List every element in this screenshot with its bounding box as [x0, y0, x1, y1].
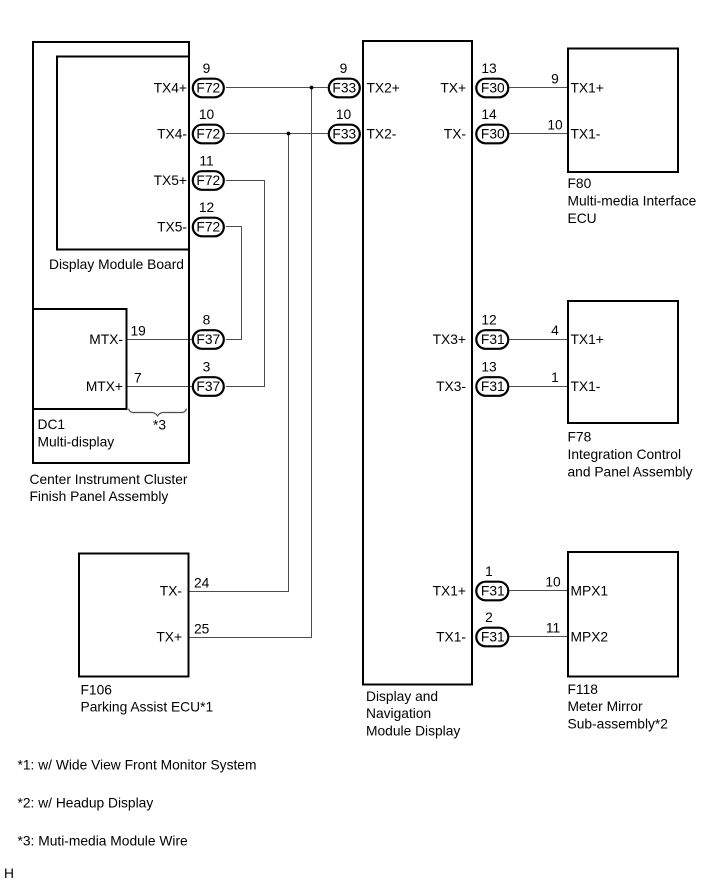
- connector F31 pin 2: [476, 610, 508, 646]
- box Center Instrument Cluster Finish Panel Assembly: [33, 42, 189, 463]
- wire F30 pin14 to F80 TX1-: [509, 133, 568, 135]
- svg-text:13: 13: [481, 61, 497, 76]
- svg-text:1: 1: [551, 370, 559, 385]
- svg-text:TX1+: TX1+: [571, 81, 604, 96]
- svg-text:F31: F31: [481, 379, 505, 394]
- svg-text:12: 12: [481, 312, 496, 327]
- svg-text:H: H: [4, 866, 14, 881]
- svg-text:MTX+: MTX+: [86, 379, 123, 394]
- wire F31 pin1 to F118 MPX1: [509, 590, 568, 592]
- svg-text:Sub-assembly*2: Sub-assembly*2: [568, 716, 668, 731]
- svg-text:13: 13: [481, 359, 497, 374]
- svg-text:Display Module Board: Display Module Board: [49, 257, 184, 272]
- svg-text:9: 9: [340, 61, 348, 76]
- svg-text:MTX-: MTX-: [89, 332, 123, 347]
- wire F30 pin13 to F80 TX1+: [509, 87, 568, 89]
- svg-text:TX4-: TX4-: [157, 127, 187, 142]
- wire F31 pin12 to F78 TX1+: [509, 339, 568, 341]
- svg-text:F37: F37: [196, 332, 220, 347]
- svg-text:4: 4: [551, 323, 559, 338]
- wire MTX+ : DC1 pin7 to F37 pin3: [128, 386, 192, 388]
- connector F30 pin 14: [476, 107, 508, 143]
- svg-text:8: 8: [203, 312, 211, 327]
- svg-text:10: 10: [336, 107, 352, 122]
- wire TX4- row: F72 pin10 to F33 pin10: [226, 133, 328, 135]
- svg-text:F72: F72: [196, 173, 220, 188]
- connector F37 pin 3: [193, 359, 224, 395]
- connector F31 pin 12: [476, 312, 508, 348]
- svg-text:11: 11: [199, 153, 213, 168]
- svg-text:Display and: Display and: [366, 689, 438, 704]
- svg-text:TX1-: TX1-: [436, 630, 466, 645]
- svg-text:12: 12: [199, 200, 214, 215]
- box Display and Navigation Module Display: [363, 41, 472, 685]
- connector F31 pin 13: [476, 359, 508, 395]
- box F106 Parking Assist ECU: [79, 554, 189, 677]
- connector F72 pin 12: [193, 200, 224, 236]
- svg-text:Navigation: Navigation: [366, 706, 431, 721]
- connector F31 pin 1: [476, 564, 508, 600]
- svg-text:9: 9: [203, 61, 211, 76]
- svg-text:ECU: ECU: [568, 211, 597, 226]
- svg-text:F31: F31: [481, 630, 505, 645]
- wire TX4+ row: F72 pin9 to F33 pin9: [226, 87, 328, 89]
- svg-text:F118: F118: [568, 682, 599, 697]
- connector F72 pin 11: [193, 153, 224, 189]
- box F78 Integration Control and Panel Assembly: [568, 301, 678, 423]
- svg-text:MPX2: MPX2: [571, 630, 609, 645]
- svg-text:F30: F30: [481, 127, 505, 142]
- svg-text:F78: F78: [568, 430, 592, 445]
- svg-text:1: 1: [485, 564, 493, 579]
- svg-text:10: 10: [199, 107, 215, 122]
- connector F33 pin 9: [329, 61, 360, 97]
- box F80 Multi-media Interface ECU: [568, 49, 678, 173]
- svg-text:TX1-: TX1-: [571, 127, 601, 142]
- svg-text:TX5+: TX5+: [154, 173, 187, 188]
- svg-text:3: 3: [203, 359, 211, 374]
- wire F106 TX- pin24 up to TX4- junction: [190, 134, 289, 592]
- svg-text:MPX1: MPX1: [571, 584, 609, 599]
- connector F33 pin 10: [329, 107, 360, 143]
- svg-text:F72: F72: [196, 220, 220, 235]
- svg-text:F80: F80: [568, 176, 592, 191]
- svg-text:F72: F72: [196, 81, 220, 96]
- svg-text:TX5-: TX5-: [157, 220, 187, 235]
- svg-text:*3: Muti-media Module Wire: *3: Muti-media Module Wire: [18, 834, 189, 849]
- svg-text:F31: F31: [481, 584, 505, 599]
- box Display Module Board: [57, 57, 189, 250]
- svg-text:TX2+: TX2+: [367, 81, 400, 96]
- connector F37 pin 8: [193, 312, 224, 348]
- svg-text:F33: F33: [332, 81, 356, 96]
- svg-text:TX2-: TX2-: [367, 127, 397, 142]
- svg-text:10: 10: [545, 575, 561, 590]
- wire TX5- : F72 pin12 to F37 pin8: [226, 227, 242, 340]
- svg-text:Meter Mirror: Meter Mirror: [568, 699, 644, 714]
- svg-text:25: 25: [194, 622, 210, 637]
- svg-text:TX3-: TX3-: [436, 379, 466, 394]
- svg-text:*2: w/ Headup Display: *2: w/ Headup Display: [18, 796, 154, 811]
- svg-text:F30: F30: [481, 81, 505, 96]
- svg-text:F37: F37: [196, 379, 220, 394]
- svg-text:TX-: TX-: [444, 127, 466, 142]
- svg-text:Parking Assist ECU*1: Parking Assist ECU*1: [81, 700, 214, 715]
- svg-text:TX1+: TX1+: [571, 332, 604, 347]
- wire F106 TX+ pin25 up to TX4+ junction: [190, 88, 312, 638]
- svg-text:TX-: TX-: [160, 584, 182, 599]
- wire MTX- : DC1 pin19 to F37 pin8: [128, 339, 192, 341]
- svg-text:Integration Control: Integration Control: [568, 447, 682, 462]
- junction node on TX4+ wire: [310, 86, 314, 90]
- svg-text:Multi-media Interface: Multi-media Interface: [568, 193, 697, 208]
- svg-text:TX1+: TX1+: [433, 584, 466, 599]
- svg-text:TX4+: TX4+: [154, 81, 187, 96]
- connector F30 pin 13: [476, 61, 508, 97]
- svg-text:DC1: DC1: [38, 417, 66, 432]
- wire F31 pin2 to F118 MPX2: [509, 636, 568, 638]
- wire TX5+ : F72 pin11 to F37 pin3: [226, 181, 265, 387]
- svg-text:19: 19: [131, 324, 147, 339]
- svg-text:Module Display: Module Display: [366, 724, 460, 739]
- svg-text:*1: w/ Wide View Front Monitor: *1: w/ Wide View Front Monitor System: [18, 758, 257, 773]
- svg-text:2: 2: [485, 610, 493, 625]
- svg-text:9: 9: [551, 72, 559, 87]
- svg-text:Finish Panel Assembly: Finish Panel Assembly: [30, 489, 169, 504]
- svg-text:F72: F72: [196, 127, 220, 142]
- svg-text:F106: F106: [81, 683, 113, 698]
- svg-text:14: 14: [481, 107, 497, 122]
- svg-text:TX+: TX+: [156, 630, 182, 645]
- svg-text:Multi-display: Multi-display: [38, 435, 115, 450]
- svg-text:F33: F33: [332, 127, 356, 142]
- svg-text:F31: F31: [481, 332, 505, 347]
- svg-text:10: 10: [547, 118, 563, 133]
- box F118 Meter Mirror Sub-assembly: [568, 552, 678, 677]
- svg-text:TX3+: TX3+: [433, 332, 466, 347]
- svg-text:*3: *3: [153, 418, 166, 433]
- junction node on TX4- wire: [287, 132, 291, 136]
- svg-text:24: 24: [194, 576, 210, 591]
- svg-text:7: 7: [134, 371, 142, 386]
- svg-text:and Panel Assembly: and Panel Assembly: [568, 464, 693, 479]
- connector F72 pin 9: [193, 61, 224, 97]
- svg-text:11: 11: [546, 621, 560, 636]
- svg-text:TX+: TX+: [440, 81, 466, 96]
- box DC1 Multi-display: [33, 309, 127, 409]
- wire F31 pin13 to F78 TX1-: [509, 386, 568, 388]
- svg-text:TX1-: TX1-: [571, 379, 601, 394]
- svg-text:Center Instrument Cluster: Center Instrument Cluster: [30, 472, 188, 487]
- connector F72 pin 10: [193, 107, 224, 143]
- brace *3 multi-media module wire: [129, 409, 187, 416]
